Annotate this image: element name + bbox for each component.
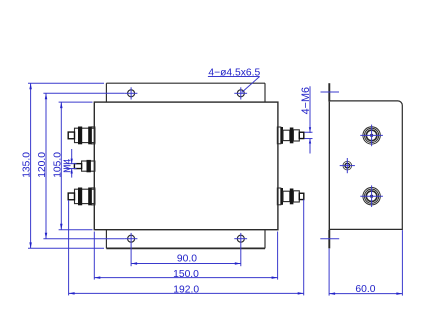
mounting hole top-left with centerline	[128, 90, 135, 97]
svg-text:150.0: 150.0	[173, 269, 199, 280]
svg-text:90.0: 90.0	[177, 254, 197, 265]
terminal stud right-bottom	[277, 188, 281, 205]
dimension 135.0 overall height: extension lines	[28, 82, 104, 84]
side view: terminal stud end-on top (concentric circles)	[363, 127, 380, 144]
label 4-ø4.5x6.5: leader line to top-right hole	[242, 77, 260, 93]
dimension 60.0: dimension line with arrows	[329, 293, 402, 295]
terminal stud left-bottom	[75, 189, 95, 203]
dimension 120.0 hole spacing: extension lines	[43, 92, 124, 94]
side view: flange centerline bottom	[320, 238, 339, 240]
dimension M4 thread callout: extension lines	[64, 163, 77, 165]
terminal stud left-middle M4 (small)	[82, 161, 95, 171]
side view: terminal stud end-on bottom (concentric circles)	[363, 188, 380, 205]
dimension 135.0: dimension line with arrows	[30, 83, 32, 248]
mounting hole bottom-left with centerline extended to 90.0 dimension	[128, 235, 135, 242]
side view: small threaded hole M4	[343, 161, 352, 170]
label 4-M6: extension lines at thread	[304, 131, 312, 133]
front view: filter body outline	[94, 102, 278, 230]
dimension 105.0 body height: extension lines	[59, 101, 93, 103]
dimension 150.0: dimension line with arrows	[94, 277, 277, 279]
svg-text:192.0: 192.0	[173, 285, 199, 296]
dimension 120.0: dimension line with arrows	[45, 93, 47, 238]
mounting hole top-right with centerline	[237, 90, 244, 97]
svg-text:60.0: 60.0	[355, 284, 375, 295]
front view: bottom mounting flange plate	[105, 230, 107, 249]
front view: top mounting flange plate	[106, 82, 265, 84]
label 4-M6: underline and leader with arrows to thread	[309, 86, 311, 133]
dimension 90.0 hole column spacing: dimension line with arrows	[131, 263, 241, 265]
dimension M4: leader lines with arrows	[71, 149, 73, 164]
dimension 105.0: dimension line with arrows	[60, 102, 62, 230]
svg-text:135.0: 135.0	[22, 152, 33, 178]
terminal stud right-top	[277, 127, 281, 144]
mounting hole bottom-right with centerline extended to 90.0 dimension	[237, 235, 244, 242]
svg-text:120.0: 120.0	[37, 152, 48, 178]
dimension 60.0 side view depth: extension lines	[328, 249, 330, 296]
side view: flange plate edge-on	[328, 83, 330, 101]
side view: flange centerline top	[321, 91, 340, 93]
terminal stud left-top	[75, 128, 95, 142]
svg-text:M4: M4	[63, 158, 74, 173]
dimension 192.0 overall length: extension lines	[68, 200, 70, 295]
dimension 150.0 body width: extension lines	[93, 232, 95, 280]
side view: body outline with rounded top-right corner	[329, 101, 402, 230]
dimension 192.0: dimension line with arrows	[69, 292, 304, 294]
